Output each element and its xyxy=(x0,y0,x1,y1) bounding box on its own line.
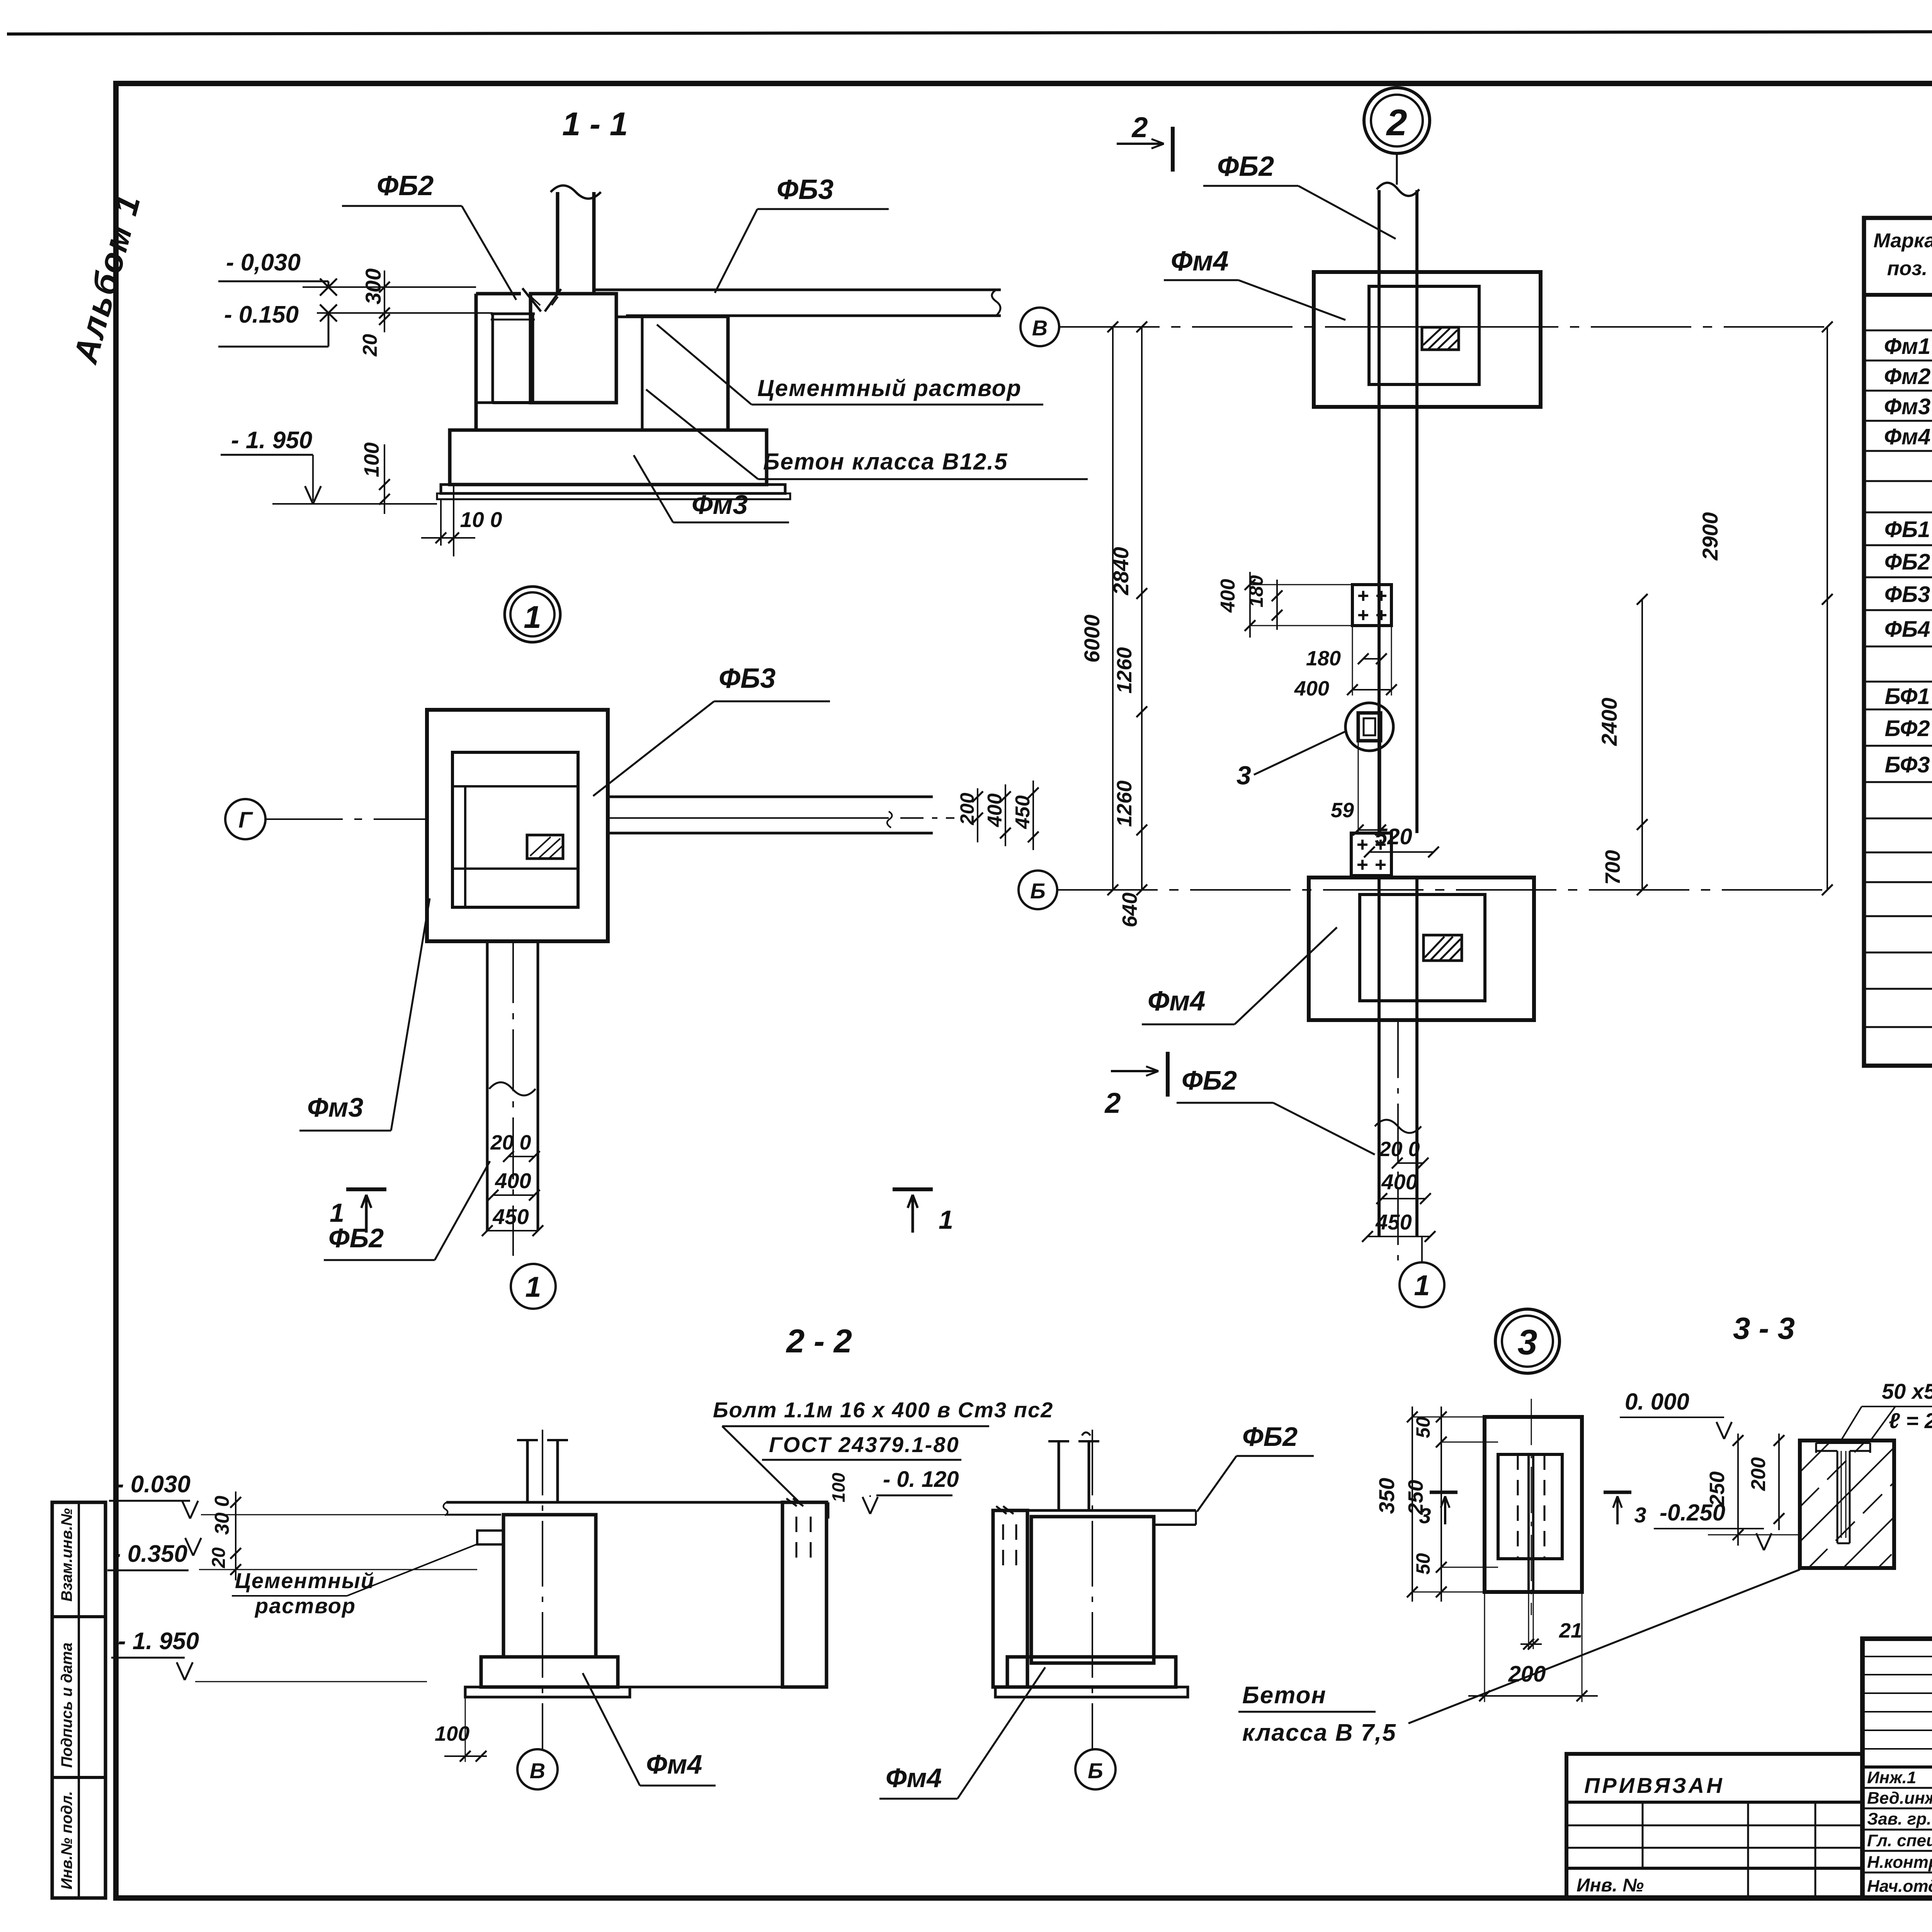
svg-text:ФБ3: ФБ3 xyxy=(777,174,833,205)
svg-text:БФ3: БФ3 xyxy=(1884,752,1930,777)
anchor plate dims 180 400 below xyxy=(1294,626,1397,700)
svg-text:400: 400 xyxy=(1294,677,1329,700)
svg-text:- 0.030: - 0.030 xyxy=(116,1471,190,1498)
svg-text:ФБ3: ФБ3 xyxy=(1884,582,1930,607)
svg-text:1: 1 xyxy=(1414,1269,1430,1301)
node 3 dim 21 xyxy=(1520,1559,1582,1650)
left dim line 6000 xyxy=(1080,321,1118,895)
center plan label FM4 top xyxy=(1164,246,1345,320)
view 2-2 elevation -0.120 xyxy=(828,1467,959,1519)
svg-text:Фм1: Фм1 xyxy=(1884,334,1930,359)
svg-text:поз.: поз. xyxy=(1887,257,1928,280)
view 1-1 title xyxy=(562,106,628,143)
svg-text:1: 1 xyxy=(525,1271,541,1303)
view 2-2 elevation -0.350 xyxy=(107,1538,477,1570)
svg-text:ФБ3: ФБ3 xyxy=(719,663,776,694)
album label xyxy=(66,189,148,368)
svg-text:1 - 1: 1 - 1 xyxy=(562,106,628,143)
svg-text:Подпись и дата: Подпись и дата xyxy=(58,1643,75,1768)
view 1-1 label FB3 xyxy=(715,174,889,293)
svg-text:В: В xyxy=(530,1759,545,1783)
svg-text:640: 640 xyxy=(1118,893,1141,927)
left stamp strip boxes xyxy=(52,1502,105,1898)
left dim line segments 2840 1260 1260 640 xyxy=(1109,321,1147,927)
label FM4 lower xyxy=(1142,927,1337,1024)
center plan label FB2 top xyxy=(1203,151,1396,239)
svg-text:Инв.№ подл.: Инв.№ подл. xyxy=(58,1791,75,1889)
svg-text:Г: Г xyxy=(238,808,253,833)
svg-text:Болт 1.1м 16 х 400 в Ст3 пс2: Болт 1.1м 16 х 400 в Ст3 пс2 xyxy=(713,1398,1053,1422)
svg-text:ФБ1: ФБ1 xyxy=(1884,517,1930,542)
axis B circle and line xyxy=(1019,871,1827,909)
center column dims below xyxy=(1362,1020,1435,1264)
section 3-3 anchor xyxy=(1816,1443,1870,1543)
plan G column dims xyxy=(482,1131,543,1236)
svg-text:Фм4: Фм4 xyxy=(1148,986,1206,1017)
view 2-2 title xyxy=(786,1323,852,1360)
center axis circle 1 bottom xyxy=(1400,1236,1444,1307)
svg-text:50: 50 xyxy=(1412,1553,1434,1575)
node 3 leader label xyxy=(1236,731,1346,790)
plan G label FB2 xyxy=(324,1161,490,1260)
view 2-2 label FM4 right xyxy=(879,1667,1045,1799)
node 3 section marks 3 xyxy=(1419,1492,1646,1528)
svg-text:- 0,030: - 0,030 xyxy=(226,249,301,276)
view 2-2 elevation -1.950 xyxy=(111,1628,427,1682)
spec table rows part 2 - foundation beams xyxy=(1884,487,1932,642)
view 2-2 left slab and base xyxy=(465,1657,827,1697)
title block outer xyxy=(1862,1639,1932,1898)
svg-text:Нач.отд.: Нач.отд. xyxy=(1867,1877,1932,1896)
svg-text:2: 2 xyxy=(1131,111,1148,143)
view 1-1 foundation block xyxy=(476,294,728,430)
svg-text:ФБ2: ФБ2 xyxy=(1217,151,1274,182)
svg-text:3 - 3: 3 - 3 xyxy=(1733,1311,1795,1345)
view 2-2 right beam xyxy=(1027,1510,1196,1525)
svg-text:Н.контр.: Н.контр. xyxy=(1867,1853,1932,1872)
title block left columns grid xyxy=(1862,1639,1932,1898)
privyazan block xyxy=(1566,1754,1862,1898)
lower foundation FM4 xyxy=(1309,878,1534,1020)
axis V circle and line xyxy=(1020,308,1827,346)
plan G beam dims 200 400 450 xyxy=(956,781,1039,850)
svg-text:3: 3 xyxy=(1419,1503,1431,1528)
svg-text:450: 450 xyxy=(1375,1210,1412,1234)
svg-text:2: 2 xyxy=(1104,1087,1121,1119)
right dim line 2900 xyxy=(1698,321,1833,895)
view 1-1 column xyxy=(551,185,601,294)
view 2-2 right slab base xyxy=(995,1657,1188,1697)
svg-text:Фм4: Фм4 xyxy=(1884,424,1930,449)
svg-text:БФ2: БФ2 xyxy=(1884,716,1930,741)
svg-text:2 - 2: 2 - 2 xyxy=(786,1323,852,1360)
view 1-1 label concrete B12.5 xyxy=(646,389,1088,479)
label FB2 lower xyxy=(1177,1065,1375,1155)
svg-text:В: В xyxy=(1032,316,1048,340)
view 1-1 dim 300 and 20 xyxy=(359,269,390,357)
svg-text:30 0: 30 0 xyxy=(211,1496,233,1535)
svg-text:Фм4: Фм4 xyxy=(1171,246,1229,277)
view 1-1 node circle 1 xyxy=(505,587,560,642)
plan G axis circle 1 bottom xyxy=(511,1264,556,1309)
center plan node circle 2 xyxy=(1364,88,1430,153)
center plan upper hatched column xyxy=(1422,327,1459,350)
svg-text:- 1. 950: - 1. 950 xyxy=(118,1628,199,1655)
spec table header texts xyxy=(1874,230,1932,282)
svg-text:0. 000: 0. 000 xyxy=(1625,1389,1689,1415)
plan G section marks 1-1 xyxy=(330,1189,953,1235)
view 1-1 elevation -1.950 xyxy=(221,427,437,504)
svg-text:Фм3: Фм3 xyxy=(307,1092,363,1122)
svg-text:- 0.350: - 0.350 xyxy=(113,1541,187,1567)
svg-text:400: 400 xyxy=(1217,579,1239,613)
svg-text:1260: 1260 xyxy=(1113,647,1136,694)
svg-text:Инв. №: Инв. № xyxy=(1577,1875,1644,1896)
svg-text:БФ1: БФ1 xyxy=(1884,684,1930,709)
view 2-2 right anchor bolts xyxy=(1048,1432,1099,1510)
svg-text:Бетон: Бетон xyxy=(1242,1682,1327,1709)
anchor plate detail on column xyxy=(1352,585,1391,626)
svg-text:Цементный раствор: Цементный раствор xyxy=(757,375,1022,401)
svg-text:200: 200 xyxy=(1747,1457,1770,1491)
svg-text:21: 21 xyxy=(1559,1619,1582,1642)
section 3-3 dims 250 200 xyxy=(1706,1434,1800,1546)
center plan upper foundation FM4 xyxy=(1314,272,1541,407)
node 3 plan inner lines xyxy=(1518,1399,1544,1615)
svg-text:Фм2: Фм2 xyxy=(1884,364,1930,389)
svg-text:3: 3 xyxy=(1517,1323,1537,1362)
svg-text:Зав. гр.: Зав. гр. xyxy=(1867,1810,1931,1828)
svg-text:Взам.инв.№: Взам.инв.№ xyxy=(58,1508,75,1602)
svg-text:Марка,: Марка, xyxy=(1874,230,1932,252)
view 1-1 dim 100 vertical xyxy=(360,442,390,514)
node 3 plan dims 50 250 50 350 xyxy=(1374,1406,1498,1602)
svg-text:180: 180 xyxy=(1306,647,1341,670)
svg-text:Б: Б xyxy=(1088,1759,1103,1783)
svg-text:ФБ2: ФБ2 xyxy=(1242,1422,1298,1452)
anchor plate detail 2 xyxy=(1351,833,1391,876)
view 2-2 right strip xyxy=(782,1498,827,1687)
svg-text:450: 450 xyxy=(1012,795,1034,829)
svg-text:300: 300 xyxy=(361,269,385,304)
svg-text:класса В 7,5: класса В 7,5 xyxy=(1242,1719,1396,1746)
svg-text:3: 3 xyxy=(1634,1503,1646,1527)
node 3 plan outer xyxy=(1485,1417,1582,1592)
view 2-2 right block xyxy=(1031,1517,1154,1663)
spec table rows part 3 - concrete blocks xyxy=(1884,651,1932,777)
view 1-1 elevation -0.150 xyxy=(218,301,337,347)
right dim line 2400 700 xyxy=(1597,594,1648,895)
view 2-2 cement step xyxy=(477,1531,503,1544)
svg-text:Фм3: Фм3 xyxy=(1884,394,1930,419)
plan G hatched column section xyxy=(527,835,563,859)
svg-text:раствор: раствор xyxy=(254,1594,356,1618)
plan G column below xyxy=(487,941,538,1256)
svg-text:1: 1 xyxy=(939,1205,953,1235)
spec table grid xyxy=(1864,218,1932,1066)
svg-text:Фм4: Фм4 xyxy=(886,1763,942,1793)
view 1-1 label FM3 xyxy=(634,455,789,522)
view 2-2 left block xyxy=(503,1515,596,1657)
title block personnel texts xyxy=(1867,1767,1932,1896)
plan G beam FB3 to right xyxy=(608,797,954,833)
node 3 balloon circle xyxy=(1495,1309,1560,1373)
section 3-3 label 50x5 xyxy=(1840,1379,1932,1442)
svg-text:20 0: 20 0 xyxy=(1379,1138,1420,1161)
svg-text:350: 350 xyxy=(1374,1478,1399,1514)
svg-text:1260: 1260 xyxy=(1113,781,1136,827)
node 3 dim 200 xyxy=(1468,1592,1598,1702)
view 1-1 beam FB3 xyxy=(303,287,1001,316)
svg-text:2400: 2400 xyxy=(1597,697,1621,746)
svg-text:100: 100 xyxy=(360,442,383,477)
svg-text:Бетон класса В12.5: Бетон класса В12.5 xyxy=(763,449,1008,474)
svg-text:ФБ4: ФБ4 xyxy=(1884,617,1930,642)
anchor plate dims 400 180 left xyxy=(1217,572,1352,638)
svg-text:400: 400 xyxy=(495,1168,531,1193)
svg-text:ГОСТ 24379.1-80: ГОСТ 24379.1-80 xyxy=(769,1432,960,1457)
plan G foundation outline xyxy=(427,710,608,941)
sheet top edge line xyxy=(7,31,1932,34)
svg-text:Цементный: Цементный xyxy=(235,1568,375,1593)
view 2-2 left anchor bolts xyxy=(517,1440,568,1502)
svg-text:Фм4: Фм4 xyxy=(646,1749,702,1779)
label 0.000 xyxy=(1620,1389,1732,1439)
svg-text:3: 3 xyxy=(1236,761,1251,790)
view 2-2 dims 300 20 xyxy=(209,1492,241,1580)
svg-text:2840: 2840 xyxy=(1109,547,1133,595)
svg-text:20: 20 xyxy=(359,334,381,357)
svg-text:Фм3: Фм3 xyxy=(692,490,748,520)
label -0.250 xyxy=(1654,1500,1772,1550)
svg-text:ФБ2: ФБ2 xyxy=(1884,549,1930,575)
view 1-1 elevation -0,030 xyxy=(218,249,337,296)
svg-text:450: 450 xyxy=(492,1204,529,1229)
view 1-1 bottom slab xyxy=(437,430,790,499)
svg-text:180: 180 xyxy=(1245,575,1267,607)
dim 520 xyxy=(1364,824,1439,857)
view 1-1 dim 100 horizontal xyxy=(421,485,502,556)
svg-text:100: 100 xyxy=(435,1722,469,1745)
svg-text:- 0.150: - 0.150 xyxy=(224,301,299,328)
svg-text:6000: 6000 xyxy=(1080,614,1104,663)
svg-text:- 0. 120: - 0. 120 xyxy=(883,1467,959,1492)
svg-text:59: 59 xyxy=(1331,799,1354,822)
svg-text:250: 250 xyxy=(1706,1471,1729,1507)
view 2-2 left axis line and circle V xyxy=(517,1430,558,1789)
view 2-2 right foundation strip xyxy=(993,1506,1027,1687)
svg-text:ФБ2: ФБ2 xyxy=(377,170,434,201)
svg-text:ФБ2: ФБ2 xyxy=(1182,1065,1237,1095)
center plan section mark 2 top xyxy=(1117,111,1173,172)
svg-text:100: 100 xyxy=(828,1473,849,1502)
svg-text:ℓ = 250: ℓ = 250 xyxy=(1889,1408,1932,1433)
section mark 2 bottom xyxy=(1104,1052,1168,1119)
label concrete B7.5 xyxy=(1238,1570,1800,1746)
view 2-2 bolt note xyxy=(713,1398,1053,1501)
svg-text:50: 50 xyxy=(1412,1417,1434,1438)
svg-text:20 0: 20 0 xyxy=(490,1131,531,1154)
svg-text:1: 1 xyxy=(524,600,541,635)
svg-text:10 0: 10 0 xyxy=(460,507,502,532)
view 1-1 label cement mortar xyxy=(657,325,1043,405)
svg-text:1: 1 xyxy=(330,1198,344,1228)
view 2-2 label cement xyxy=(232,1544,478,1618)
svg-text:2900: 2900 xyxy=(1698,512,1722,561)
view 2-2 label FM4 left xyxy=(583,1673,716,1786)
svg-text:Инж.1: Инж.1 xyxy=(1867,1768,1916,1787)
svg-text:ПРИВЯЗАН: ПРИВЯЗАН xyxy=(1584,1773,1725,1798)
node 3 circle with detail xyxy=(1345,703,1393,751)
plan G axis circle xyxy=(225,799,427,839)
view 2-2 elevation -0.030 xyxy=(109,1471,446,1519)
section 3-3 hatched block xyxy=(1800,1440,1894,1568)
view 2-2 left top surface xyxy=(443,1502,798,1515)
view 1-1 label FB2 xyxy=(342,170,516,300)
view 1-1 grout wedge xyxy=(522,288,561,311)
section 3-3 title xyxy=(1733,1311,1795,1345)
plan G label FM3 xyxy=(299,898,430,1131)
lower hatched column xyxy=(1423,935,1462,961)
node 3 dim 59 xyxy=(1331,741,1386,835)
svg-text:700: 700 xyxy=(1601,850,1624,885)
svg-text:- 1. 950: - 1. 950 xyxy=(231,427,312,454)
plan G label FB3 xyxy=(593,663,830,796)
svg-text:Б: Б xyxy=(1030,879,1046,903)
svg-text:20: 20 xyxy=(209,1547,229,1568)
svg-text:400: 400 xyxy=(1381,1170,1417,1194)
spec table rows part 1 - foundations xyxy=(1884,301,1932,449)
svg-text:2: 2 xyxy=(1386,102,1407,143)
svg-text:Гл. спец.: Гл. спец. xyxy=(1867,1831,1932,1850)
svg-text:50 х5: 50 х5 xyxy=(1882,1379,1932,1403)
view 2-2 right axis circle B xyxy=(1075,1430,1116,1789)
center plan column verticals xyxy=(1375,154,1421,1236)
view 2-2 label FB2 right xyxy=(1197,1422,1314,1512)
svg-text:Вед.инж.: Вед.инж. xyxy=(1867,1789,1932,1808)
left stamp strip labels xyxy=(58,1508,75,1889)
view 2-2 dim 100 left xyxy=(435,1697,487,1762)
